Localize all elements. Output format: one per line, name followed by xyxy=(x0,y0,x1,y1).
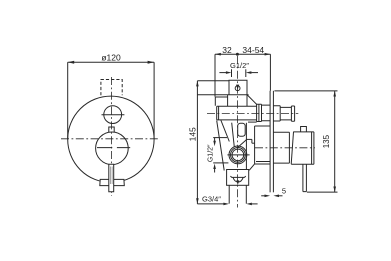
pipe stub to wall xyxy=(262,105,271,121)
cartridge circle xyxy=(96,132,129,165)
dim 5 right arrow xyxy=(279,195,283,197)
dim 5 left arrow xyxy=(261,195,265,197)
dim 145 top arrow xyxy=(196,81,199,87)
port centerline vertical xyxy=(237,56,239,208)
bottom port seat bowl xyxy=(233,177,243,182)
G1/2 top ext lines xyxy=(232,69,246,77)
pipe end caps xyxy=(217,106,219,120)
G1/2 top left arrow xyxy=(219,72,226,74)
dim 145 ext top xyxy=(197,80,229,82)
top port box xyxy=(229,80,247,94)
handle end cap line xyxy=(311,132,313,164)
extension line wall xyxy=(269,54,271,91)
side port thread circle xyxy=(231,148,246,163)
bottom pipe xyxy=(229,185,246,203)
dim 145 bottom arrow xyxy=(196,198,199,204)
top port screw circle xyxy=(235,86,240,91)
body step line 2 xyxy=(252,142,255,144)
bottom port seat top line xyxy=(230,176,245,177)
sleeve joint slant xyxy=(291,132,293,164)
svg-text:32: 32 xyxy=(222,45,232,55)
vertical centerline front xyxy=(111,77,113,196)
top dim right arrow xyxy=(265,53,271,56)
G1/2 top right arrow xyxy=(251,72,258,74)
lever bar front xyxy=(109,164,114,192)
svg-text:135: 135 xyxy=(322,134,331,148)
svg-text:G3/4″: G3/4″ xyxy=(202,195,221,204)
body chamfer diagonal xyxy=(237,139,247,148)
dim 135 ext top xyxy=(274,90,337,92)
body slant mid xyxy=(221,120,230,142)
cartridge tab xyxy=(109,127,114,132)
extension line left xyxy=(67,62,69,139)
dim 135 top arrow xyxy=(333,91,336,97)
pipe axis centerline xyxy=(207,112,298,114)
hidden valve box dashed xyxy=(101,80,122,96)
lever crossbar front xyxy=(100,179,125,185)
lever bar side xyxy=(303,164,307,191)
side port outer circle xyxy=(229,146,247,164)
diverter knob circle xyxy=(104,106,122,124)
wall bracket xyxy=(255,126,270,164)
dim 145 ext shoulder xyxy=(197,94,227,96)
bottom ref line left with arrow xyxy=(197,203,223,205)
dim 135 ext bottom xyxy=(307,191,338,193)
wall line front xyxy=(269,91,271,193)
svg-text:34-54: 34-54 xyxy=(242,45,264,55)
diagonal port to nut xyxy=(247,95,257,105)
body step line xyxy=(246,138,252,140)
svg-text:G1/2″: G1/2″ xyxy=(208,144,215,162)
shoulder below pipe xyxy=(248,121,257,123)
G1/2 side tick bottom xyxy=(213,162,228,164)
body slant inner xyxy=(232,123,235,147)
body right edge xyxy=(245,123,247,170)
bottom ref line right with arrow xyxy=(252,203,258,205)
top dim middle dot xyxy=(236,53,239,56)
diverter knob slot line xyxy=(102,114,125,116)
body slant outer xyxy=(217,121,225,171)
body step vertical xyxy=(251,139,253,143)
top dimension line xyxy=(215,53,270,55)
wall line back xyxy=(272,91,274,193)
bottom port box xyxy=(227,170,249,186)
cartridge horizontal line xyxy=(97,147,130,149)
diverter knob body xyxy=(280,107,291,120)
dim 135 line xyxy=(334,91,336,192)
lever slot capsule xyxy=(238,123,246,136)
diverter stem xyxy=(273,106,280,121)
svg-text:5: 5 xyxy=(282,187,286,196)
left shoulder xyxy=(215,97,227,106)
top dim left arrow xyxy=(215,53,221,56)
supply pipe xyxy=(217,106,257,120)
dim 145 line xyxy=(196,81,198,204)
svg-text:G1/2″: G1/2″ xyxy=(230,61,249,70)
dim 135 bottom arrow xyxy=(333,187,336,193)
side port bore circle xyxy=(232,149,244,161)
top port shoulder xyxy=(228,94,249,96)
handle body xyxy=(291,132,314,164)
side port crosshair xyxy=(227,154,249,156)
dimension d120 left arrow xyxy=(68,61,75,64)
pipe nut xyxy=(257,104,262,121)
extension line body left xyxy=(214,54,216,97)
G1/2 side arrow down xyxy=(214,138,216,142)
diverter knob cap xyxy=(291,106,294,121)
lever bar inner lines xyxy=(110,167,112,185)
neck lines xyxy=(228,95,247,107)
body chamfer to box xyxy=(249,164,254,170)
G1/2 side arrow up xyxy=(214,169,216,173)
dimension d120 right arrow xyxy=(148,61,155,64)
handle tab xyxy=(301,127,307,132)
bottom flow arrow xyxy=(236,180,239,185)
top port flow arrow xyxy=(236,85,239,90)
horizontal centerline front xyxy=(61,138,160,140)
extension line right xyxy=(153,62,155,139)
plate circle xyxy=(68,96,154,182)
svg-text:ø120: ø120 xyxy=(101,53,121,63)
dimension d120 line xyxy=(68,61,154,63)
escutcheon sleeve xyxy=(273,132,289,163)
trim axis centerline xyxy=(255,147,315,149)
svg-text:145: 145 xyxy=(187,127,197,141)
G1/2 side tick top xyxy=(213,137,227,139)
